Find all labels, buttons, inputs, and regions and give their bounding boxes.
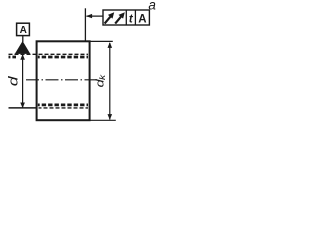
svg-text:A: A: [138, 13, 146, 25]
svg-text:d: d: [7, 76, 21, 86]
extension line top right (for dk): [90, 40, 113, 42]
extension line bottom right (for dk): [90, 119, 116, 121]
svg-text:a: a: [148, 0, 156, 12]
hidden thread line bottom thick: [38, 104, 88, 107]
parallelism symbol arrow 1: [105, 16, 111, 23]
dimension line d: [22, 55, 24, 108]
arrow dk top: [108, 42, 113, 48]
datum triangle: [15, 41, 30, 54]
feature control frame: [103, 10, 149, 25]
hidden thread line bottom thin: [9, 107, 38, 109]
leader line: [87, 15, 104, 17]
arrow dk bottom: [108, 114, 113, 120]
dimension line dk: [109, 43, 111, 120]
hidden thread line top thin: [9, 53, 89, 55]
arrow d top: [20, 54, 25, 60]
datum box A: [17, 23, 30, 35]
svg-text:A: A: [20, 25, 27, 36]
hidden thread line top thick: [9, 56, 89, 59]
datum stem: [22, 35, 24, 42]
parallelism symbol arrow 2: [115, 16, 121, 23]
leader arrow: [86, 14, 92, 18]
part body rectangle: [37, 41, 90, 120]
center line (axis): [26, 79, 97, 81]
arrow d bottom: [20, 103, 25, 109]
extension line for tolerance leader: [84, 8, 86, 41]
